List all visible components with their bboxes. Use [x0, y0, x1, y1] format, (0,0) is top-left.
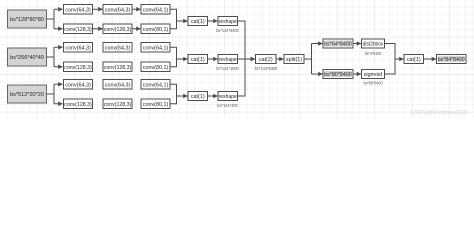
svg-text:conv(80,1): conv(80,1) [143, 65, 169, 71]
svg-text:conv(64,3): conv(64,3) [105, 82, 131, 88]
svg-text:conv(128,3): conv(128,3) [104, 102, 132, 108]
svg-text:bs*128*80*80: bs*128*80*80 [10, 17, 44, 23]
svg-text:bs*144*1600: bs*144*1600 [216, 66, 239, 71]
svg-text:conv(128,3): conv(128,3) [104, 27, 132, 33]
svg-text:cat(2): cat(2) [259, 57, 273, 63]
svg-text:bs*144*6400: bs*144*6400 [216, 28, 239, 33]
svg-text:dist2bbox: dist2bbox [363, 42, 384, 48]
svg-text:sigmoid: sigmoid [364, 72, 383, 78]
svg-text:bs*84*8400: bs*84*8400 [438, 57, 465, 63]
svg-text:conv(128,3): conv(128,3) [64, 65, 92, 71]
svg-text:bs*80*8400: bs*80*8400 [324, 72, 352, 78]
svg-text:conv(80,1): conv(80,1) [143, 27, 169, 33]
svg-text:conv(64,1): conv(64,1) [143, 45, 169, 51]
svg-text:split(1): split(1) [286, 57, 302, 63]
svg-text:cat(1): cat(1) [191, 57, 205, 63]
svg-text:cat(1): cat(1) [407, 57, 421, 63]
svg-text:bs*256*40*40: bs*256*40*40 [10, 55, 44, 61]
svg-text:conv(64,3): conv(64,3) [65, 45, 91, 51]
svg-text:bs*144*8400: bs*144*8400 [255, 66, 278, 71]
svg-text:conv(64,1): conv(64,1) [143, 82, 169, 88]
svg-text:bs*512*20*20: bs*512*20*20 [10, 92, 44, 98]
svg-text:cat(1): cat(1) [191, 19, 205, 25]
svg-text:reshape: reshape [219, 57, 237, 63]
svg-text:conv(64,3): conv(64,3) [105, 45, 131, 51]
svg-text:CSDN @Goodness2020: CSDN @Goodness2020 [411, 110, 468, 116]
svg-text:bs*4*8400: bs*4*8400 [365, 51, 382, 56]
svg-text:cat(1): cat(1) [191, 94, 205, 100]
svg-text:conv(64,3): conv(64,3) [105, 7, 131, 13]
svg-text:reshape: reshape [219, 19, 237, 25]
svg-text:conv(128,3): conv(128,3) [64, 102, 92, 108]
svg-text:bs*144*400: bs*144*400 [217, 103, 238, 108]
svg-text:conv(64,3): conv(64,3) [65, 82, 91, 88]
svg-text:conv(64,1): conv(64,1) [143, 7, 169, 13]
svg-text:conv(128,3): conv(128,3) [104, 65, 132, 71]
svg-text:bs*80*8400: bs*80*8400 [364, 81, 383, 86]
svg-text:conv(64,3): conv(64,3) [65, 7, 91, 13]
svg-text:conv(128,3): conv(128,3) [64, 27, 92, 33]
svg-text:conv(80,1): conv(80,1) [143, 102, 169, 108]
svg-text:bs*64*8400: bs*64*8400 [324, 42, 352, 48]
svg-text:reshape: reshape [219, 94, 237, 100]
